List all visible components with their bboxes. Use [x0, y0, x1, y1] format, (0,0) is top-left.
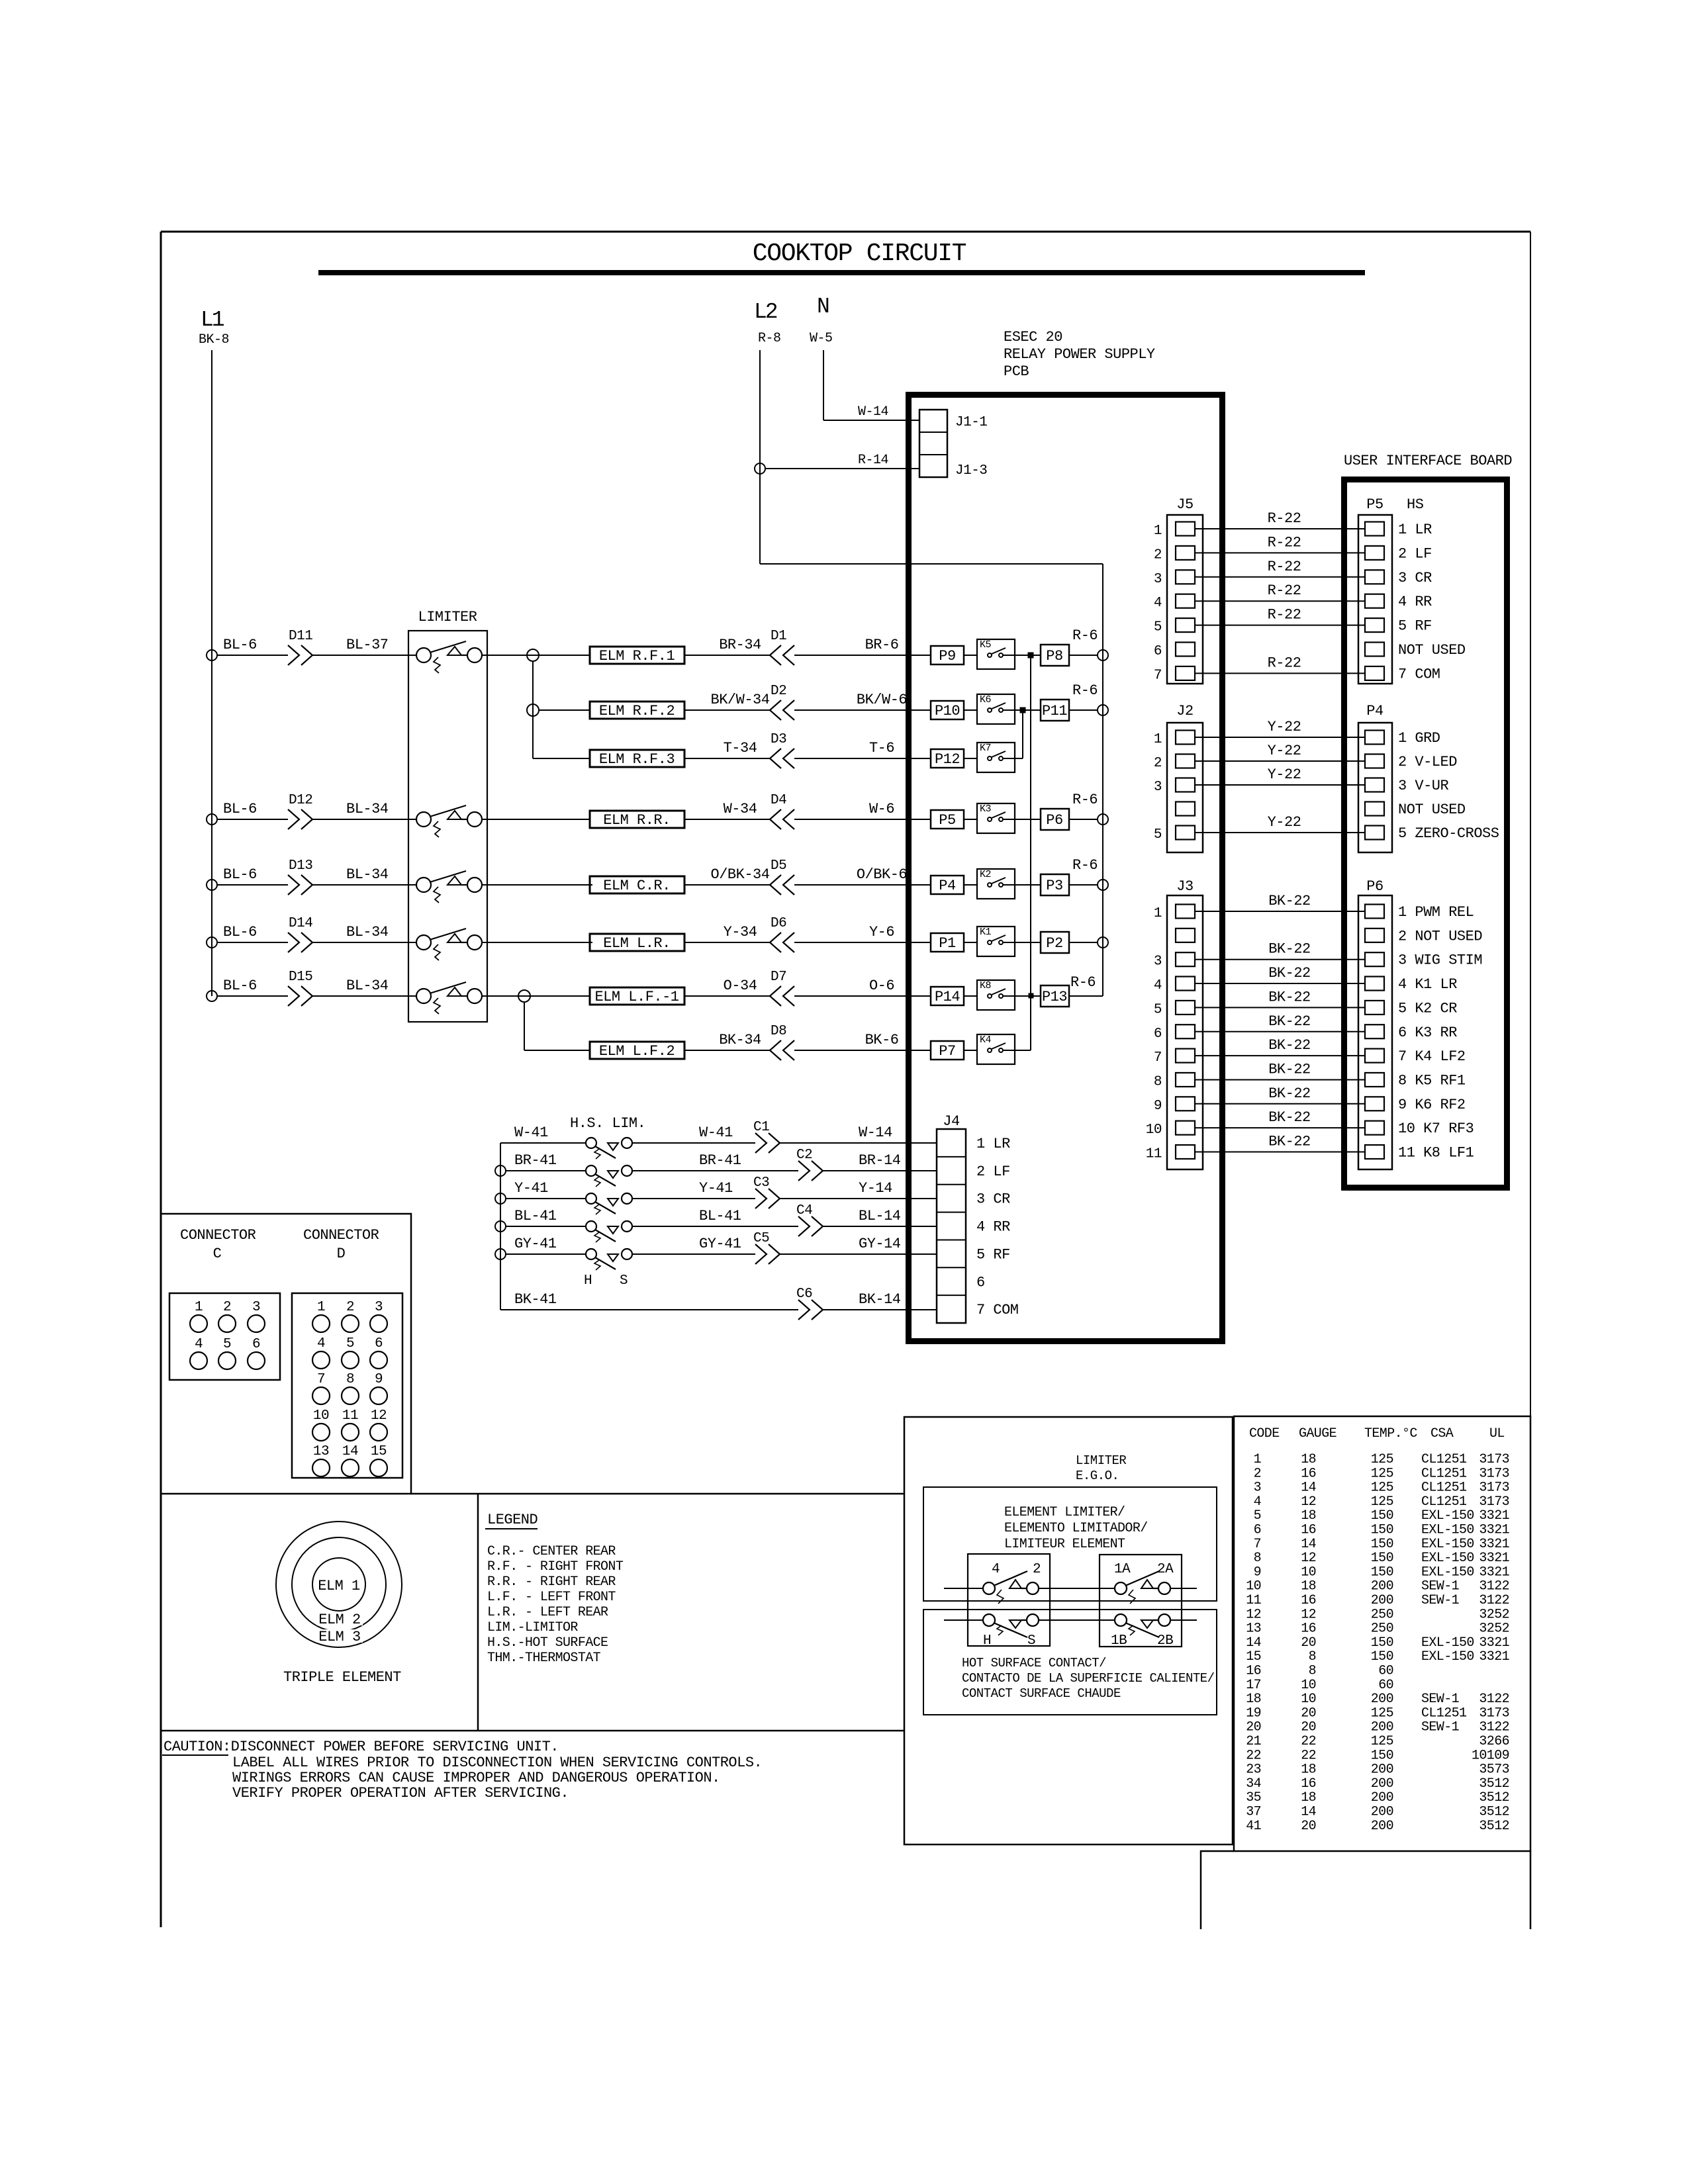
svg-text:C: C	[213, 1246, 222, 1262]
connector P4 pin cell 3	[1365, 778, 1384, 792]
svg-text:EXL-150: EXL-150	[1421, 1649, 1474, 1664]
svg-text:ELM 2: ELM 2	[318, 1612, 361, 1628]
svg-text:3266: 3266	[1479, 1734, 1509, 1749]
svg-text:BK-41: BK-41	[514, 1291, 557, 1308]
svg-text:7 COM: 7 COM	[1398, 666, 1440, 682]
junction L1-RF1	[207, 650, 217, 660]
wire W-14	[780, 1142, 937, 1144]
svg-text:P13: P13	[1042, 989, 1067, 1005]
svg-text:20: 20	[1301, 1706, 1316, 1721]
triple element inner circle	[312, 1558, 365, 1611]
svg-text:4: 4	[1154, 596, 1162, 611]
svg-text:5 RF: 5 RF	[1398, 618, 1432, 635]
wire T-6	[794, 758, 931, 759]
svg-text:5: 5	[346, 1336, 354, 1351]
svg-text:LABEL ALL WIRES PRIOR TO DISCO: LABEL ALL WIRES PRIOR TO DISCONNECTION W…	[232, 1754, 762, 1771]
svg-text:EXL-150: EXL-150	[1421, 1551, 1474, 1566]
svg-text:K6: K6	[980, 694, 992, 705]
limiter ego section box	[904, 1417, 1233, 1844]
svg-text:ELM L.F.-1: ELM L.F.-1	[594, 989, 679, 1005]
section divider caution top	[161, 1730, 904, 1732]
svg-text:4 RR: 4 RR	[976, 1219, 1010, 1236]
svg-text:D11: D11	[289, 629, 312, 644]
svg-text:P6: P6	[1366, 878, 1383, 895]
svg-text:EXL-150: EXL-150	[1421, 1508, 1474, 1524]
svg-text:1B: 1B	[1111, 1633, 1127, 1649]
wire code table box	[1234, 1416, 1530, 1851]
terminal P11	[1041, 700, 1069, 721]
wire P3 to R bus	[1069, 884, 1098, 886]
svg-text:ELEMENTO LIMITADOR/: ELEMENTO LIMITADOR/	[1004, 1521, 1148, 1536]
svg-text:18: 18	[1301, 1579, 1316, 1594]
connector D5	[770, 875, 794, 895]
svg-text:1 LR: 1 LR	[1398, 522, 1432, 538]
connector J5 pin 3 cell	[1176, 570, 1195, 584]
hot-surface limiter switch GY	[586, 1249, 596, 1259]
svg-text:BL-14: BL-14	[859, 1208, 901, 1224]
hot-surface limiter switch W	[586, 1138, 596, 1148]
connector D box	[292, 1293, 402, 1478]
junction L1-LR	[207, 937, 217, 948]
connector P6 pin cell 8	[1365, 1073, 1384, 1087]
wire R-22 J5-4	[1195, 600, 1365, 602]
connector J5 pin 5 cell	[1176, 618, 1195, 632]
svg-text:11: 11	[1246, 1593, 1261, 1608]
hot surface dotted box	[923, 1610, 1217, 1715]
wire W-14 to J1-1	[823, 420, 919, 421]
svg-text:BL-6: BL-6	[223, 866, 257, 883]
connector P5 pin cell 7	[1365, 666, 1384, 680]
page border right	[1530, 232, 1531, 1929]
wire Y-41 right Y	[632, 1198, 755, 1199]
wire BL-14	[823, 1226, 937, 1227]
svg-text:250: 250	[1371, 1607, 1393, 1622]
svg-text:NOT USED: NOT USED	[1398, 801, 1466, 818]
terminal P13	[1041, 985, 1069, 1007]
connector D13	[288, 875, 312, 895]
connector C5	[755, 1244, 780, 1264]
element box ELM C.R.	[590, 876, 684, 893]
svg-text:W-5: W-5	[810, 331, 833, 346]
junction RF1 branch	[527, 649, 539, 661]
svg-text:200: 200	[1371, 1593, 1393, 1608]
svg-text:R-22: R-22	[1268, 655, 1301, 671]
wire BK-22 J3-6	[1195, 1031, 1365, 1032]
terminal P8	[1041, 645, 1069, 666]
terminal P7	[931, 1041, 964, 1060]
svg-text:ESEC 20: ESEC 20	[1004, 329, 1062, 345]
svg-text:D7: D7	[771, 970, 786, 985]
svg-text:16: 16	[1301, 1593, 1316, 1608]
svg-text:3321: 3321	[1479, 1565, 1509, 1580]
wire BK-22 J3-5	[1195, 1007, 1365, 1008]
svg-text:HS: HS	[1407, 496, 1424, 513]
connector J2 pin 5 cell	[1176, 826, 1195, 840]
connector P4 box	[1358, 723, 1392, 852]
junction R bus RF1	[1098, 650, 1108, 660]
svg-text:VERIFY PROPER OPERATION AFTER: VERIFY PROPER OPERATION AFTER SERVICING.	[232, 1785, 569, 1801]
junction R bus LR	[1098, 937, 1108, 948]
svg-text:3321: 3321	[1479, 1649, 1509, 1664]
svg-text:6: 6	[375, 1336, 383, 1351]
svg-text:1: 1	[1154, 906, 1162, 921]
svg-text:C4: C4	[796, 1203, 812, 1218]
svg-text:D4: D4	[771, 793, 786, 808]
svg-text:11 K8 LF1: 11 K8 LF1	[1398, 1145, 1474, 1161]
svg-text:20: 20	[1246, 1720, 1261, 1735]
svg-text:BR-6: BR-6	[865, 637, 899, 653]
svg-text:C.R.- CENTER REAR: C.R.- CENTER REAR	[487, 1544, 616, 1559]
svg-text:3: 3	[1154, 572, 1162, 587]
ego lower right switch	[1115, 1614, 1127, 1626]
connector D11	[288, 645, 312, 665]
svg-text:N: N	[817, 295, 829, 319]
svg-text:P6: P6	[1046, 812, 1062, 829]
relay contact K6	[977, 694, 1015, 724]
svg-text:J4: J4	[943, 1113, 960, 1130]
limiter box	[408, 631, 487, 1022]
relay contact K2	[977, 869, 1015, 899]
svg-text:1: 1	[317, 1300, 325, 1315]
connector J2 pin 1 cell	[1176, 731, 1195, 745]
svg-text:7: 7	[1254, 1537, 1261, 1552]
element box ELM R.F.2	[590, 702, 684, 719]
svg-text:E.G.O.: E.G.O.	[1076, 1469, 1119, 1483]
svg-text:3122: 3122	[1479, 1579, 1509, 1594]
ego upper wire right	[1170, 1588, 1197, 1589]
label ELM 2	[316, 1612, 363, 1625]
connector C6	[798, 1300, 823, 1320]
wire RF branch drop	[532, 661, 534, 758]
svg-text:J1-1: J1-1	[955, 415, 987, 430]
svg-text:BL-34: BL-34	[346, 801, 389, 817]
svg-text:17: 17	[1246, 1678, 1261, 1693]
svg-text:K5: K5	[980, 639, 992, 651]
svg-text:BR-34: BR-34	[719, 637, 761, 653]
svg-text:22: 22	[1246, 1748, 1261, 1763]
svg-text:6: 6	[1154, 644, 1162, 659]
svg-text:BK-22: BK-22	[1268, 1134, 1311, 1150]
svg-text:10109: 10109	[1472, 1748, 1509, 1763]
wire limiter to CR element	[487, 884, 592, 886]
connector P6 pin cell 10	[1365, 1121, 1384, 1135]
svg-text:4: 4	[1254, 1494, 1261, 1510]
svg-text:R-6: R-6	[1072, 792, 1098, 808]
svg-text:125: 125	[1371, 1452, 1393, 1467]
svg-text:9: 9	[1154, 1099, 1162, 1114]
wire R-14 to J1-3	[765, 468, 919, 469]
svg-text:O/BK-6: O/BK-6	[857, 866, 907, 883]
svg-text:3252: 3252	[1479, 1621, 1509, 1637]
svg-text:R-22: R-22	[1268, 582, 1301, 599]
svg-text:4: 4	[992, 1562, 1000, 1577]
svg-text:150: 150	[1371, 1508, 1393, 1524]
connector C2	[798, 1161, 823, 1181]
terminal P2	[1041, 932, 1069, 953]
terminal P3	[1041, 874, 1069, 895]
svg-text:J5: J5	[1176, 496, 1193, 513]
relay power supply PCB box	[909, 395, 1223, 1342]
junction R bus CR	[1098, 880, 1108, 890]
svg-text:BL-6: BL-6	[223, 978, 257, 994]
svg-text:Y-22: Y-22	[1268, 719, 1301, 735]
wire P9 to K5	[964, 655, 977, 656]
wire R bus to P13	[1069, 995, 1103, 997]
wire R-22 J5-1	[1195, 528, 1365, 529]
svg-text:2 NOT USED: 2 NOT USED	[1398, 928, 1482, 944]
wire limiter to LR element	[487, 942, 592, 943]
svg-text:15: 15	[1246, 1649, 1261, 1664]
svg-text:BK-22: BK-22	[1268, 1085, 1311, 1102]
svg-text:1: 1	[1154, 523, 1162, 539]
svg-text:3122: 3122	[1479, 1593, 1509, 1608]
wire BR-34	[684, 655, 770, 656]
wire Y-22 J2-5	[1195, 832, 1365, 833]
wire P1 to K1	[964, 942, 977, 943]
svg-text:CONNECTOR: CONNECTOR	[303, 1227, 379, 1244]
wire Y-41 left Y	[506, 1198, 586, 1199]
ego upper right switch	[1115, 1582, 1127, 1594]
svg-text:EXL-150: EXL-150	[1421, 1523, 1474, 1538]
wire limiter out LF1	[482, 995, 487, 997]
wire P8 to R bus	[1069, 655, 1098, 656]
user interface board box	[1344, 480, 1507, 1188]
connector J5 pin 2 cell	[1176, 546, 1195, 560]
svg-text:150: 150	[1371, 1635, 1393, 1651]
connector J3 pin 6 cell	[1176, 1024, 1195, 1038]
svg-text:ELM 3: ELM 3	[318, 1629, 361, 1645]
wire RF2 branch	[539, 709, 590, 711]
svg-text:W-34: W-34	[724, 801, 757, 817]
svg-text:125: 125	[1371, 1734, 1393, 1749]
wire K6 out	[1003, 709, 1041, 711]
svg-text:2: 2	[223, 1300, 231, 1315]
svg-text:4: 4	[317, 1336, 325, 1351]
svg-text:Y-14: Y-14	[859, 1180, 892, 1197]
svg-text:18: 18	[1301, 1790, 1316, 1805]
terminal P6	[1041, 809, 1069, 830]
wire K8 out	[1003, 995, 1041, 997]
wire K7 out	[1003, 758, 1023, 759]
junction L1-CR	[207, 880, 217, 890]
svg-text:200: 200	[1371, 1692, 1393, 1707]
wire GY-41 right GY	[632, 1253, 755, 1255]
connector P5 pin cell 5	[1365, 618, 1384, 632]
svg-text:D5: D5	[771, 858, 786, 874]
svg-text:12: 12	[1301, 1494, 1316, 1510]
svg-text:P9: P9	[939, 648, 955, 664]
terminal P14	[931, 987, 964, 1005]
wire BR-6	[794, 655, 931, 656]
svg-text:14: 14	[342, 1444, 358, 1459]
svg-text:16: 16	[1301, 1466, 1316, 1481]
triple element outer circle	[276, 1522, 402, 1647]
svg-text:3122: 3122	[1479, 1720, 1509, 1735]
svg-text:LIMITEUR ELEMENT: LIMITEUR ELEMENT	[1004, 1537, 1125, 1552]
svg-text:P7: P7	[939, 1043, 955, 1060]
ego lower wire mid	[1039, 1619, 1115, 1621]
wire BK-22 J3-10	[1195, 1127, 1365, 1128]
svg-text:10: 10	[313, 1408, 329, 1424]
svg-text:SEW-1: SEW-1	[1421, 1593, 1460, 1608]
svg-text:3173: 3173	[1479, 1706, 1509, 1721]
connector P5 pin cell 3	[1365, 570, 1384, 584]
svg-text:2 V-LED: 2 V-LED	[1398, 754, 1457, 770]
wire RF3 branch	[533, 758, 590, 759]
svg-text:K3: K3	[980, 803, 992, 815]
wire W-6	[794, 819, 931, 820]
wire K5 node vertical	[1030, 655, 1031, 1050]
wire limiter out RR	[482, 819, 487, 820]
ego lower wire right	[1170, 1619, 1197, 1621]
relay contact K4	[977, 1034, 1015, 1064]
connector P5 box	[1358, 515, 1392, 684]
svg-text:LIM.-LIMITOR: LIM.-LIMITOR	[487, 1620, 578, 1635]
connector J3 pin 11 cell	[1176, 1145, 1195, 1159]
svg-text:BL-34: BL-34	[346, 924, 389, 940]
ego upper left switch	[983, 1582, 995, 1594]
wire P6 to R bus	[1069, 819, 1098, 820]
svg-text:COOKTOP CIRCUIT: COOKTOP CIRCUIT	[753, 240, 966, 268]
svg-text:3512: 3512	[1479, 1790, 1509, 1805]
svg-text:5: 5	[1154, 1002, 1162, 1017]
limiter switch CR	[416, 878, 431, 892]
svg-text:ELM R.F.1: ELM R.F.1	[599, 648, 675, 664]
connector P6 pin cell 7	[1365, 1049, 1384, 1063]
terminal P10	[931, 701, 964, 719]
svg-text:H.S. LIM.: H.S. LIM.	[570, 1115, 645, 1132]
svg-text:16: 16	[1301, 1621, 1316, 1637]
svg-text:16: 16	[1301, 1523, 1316, 1538]
connector P4 pin cell 4	[1365, 802, 1384, 816]
wire BL-6 CR	[217, 884, 288, 886]
svg-text:P8: P8	[1046, 648, 1062, 664]
connector J5 pin 4 cell	[1176, 594, 1195, 608]
svg-text:Y-22: Y-22	[1268, 766, 1301, 783]
title underline	[318, 270, 1365, 275]
svg-text:R-6: R-6	[1072, 627, 1098, 644]
page border top	[161, 231, 1530, 233]
wire K5 out	[1003, 655, 1041, 656]
connector C1	[755, 1133, 780, 1153]
svg-text:7: 7	[1154, 668, 1162, 683]
svg-text:K1: K1	[980, 927, 992, 938]
svg-text:8: 8	[346, 1372, 354, 1387]
svg-text:BK/W-34: BK/W-34	[711, 692, 770, 708]
svg-text:NOT USED: NOT USED	[1398, 642, 1466, 659]
junction L2 R-14 tap	[755, 463, 765, 474]
svg-text:8: 8	[1154, 1074, 1162, 1089]
element box ELM R.R.	[590, 811, 684, 828]
svg-text:BK-22: BK-22	[1268, 1013, 1311, 1030]
svg-text:D2: D2	[771, 684, 786, 699]
junction HS trunk GY	[495, 1249, 506, 1259]
svg-text:J2: J2	[1176, 703, 1193, 719]
svg-text:C5: C5	[753, 1231, 769, 1246]
connector P6 pin cell 3	[1365, 952, 1384, 966]
svg-text:UL: UL	[1489, 1426, 1505, 1441]
svg-text:10: 10	[1246, 1579, 1261, 1594]
svg-text:18: 18	[1301, 1452, 1316, 1467]
svg-text:T-6: T-6	[869, 740, 894, 756]
wire BK-22 J3-8	[1195, 1079, 1365, 1080]
svg-text:P1: P1	[939, 935, 956, 952]
svg-text:R-6: R-6	[1072, 857, 1098, 874]
svg-text:4: 4	[1154, 978, 1162, 993]
connector J3 pin 5 cell	[1176, 1001, 1195, 1015]
svg-text:BK-22: BK-22	[1268, 1061, 1311, 1077]
svg-text:D6: D6	[771, 916, 786, 931]
wire O/BK-34	[684, 884, 770, 886]
svg-text:D1: D1	[771, 629, 786, 644]
ego upper wire mid	[1039, 1588, 1115, 1589]
svg-text:BK-22: BK-22	[1268, 989, 1311, 1005]
wire L2 drop	[759, 350, 761, 564]
label ELM 3	[316, 1629, 363, 1643]
svg-text:SEW-1: SEW-1	[1421, 1692, 1460, 1707]
svg-text:BL-41: BL-41	[514, 1208, 557, 1224]
wire BL-34 LF1	[312, 995, 416, 997]
svg-text:ELM R.F.3: ELM R.F.3	[599, 751, 675, 768]
svg-text:4 RR: 4 RR	[1398, 594, 1432, 610]
wire O-34	[684, 995, 770, 997]
svg-text:10: 10	[1301, 1692, 1316, 1707]
relay contact K3	[977, 803, 1015, 833]
junction HS trunk BL	[495, 1221, 506, 1232]
wire R bus vertical	[1102, 564, 1103, 996]
wire BL-6 RF1	[217, 655, 288, 656]
svg-text:CL1251: CL1251	[1421, 1494, 1467, 1510]
ego right sub-box	[1100, 1555, 1182, 1647]
svg-text:GY-14: GY-14	[859, 1236, 901, 1252]
wire limiter out CR	[482, 884, 487, 886]
svg-text:P11: P11	[1042, 703, 1067, 719]
svg-text:USER INTERFACE BOARD: USER INTERFACE BOARD	[1344, 453, 1512, 469]
junction L1-LF1	[207, 991, 217, 1001]
svg-text:12: 12	[1246, 1607, 1261, 1622]
hot-surface limiter switch BL	[586, 1221, 596, 1232]
svg-text:2 LF: 2 LF	[1398, 545, 1432, 562]
connector J2 pin 4 cell	[1176, 802, 1195, 816]
svg-text:L.R. - LEFT REAR: L.R. - LEFT REAR	[487, 1605, 608, 1620]
connector J3 pin 9 cell	[1176, 1097, 1195, 1111]
relay contact K1	[977, 927, 1015, 956]
svg-text:W-41: W-41	[699, 1124, 733, 1141]
ego left sub-box	[968, 1554, 1050, 1646]
svg-text:6: 6	[1154, 1026, 1162, 1042]
connector D12	[288, 809, 312, 829]
svg-text:Y-41: Y-41	[699, 1180, 733, 1197]
svg-text:4 K1 LR: 4 K1 LR	[1398, 976, 1457, 993]
connector J2 pin 3 cell	[1176, 778, 1195, 792]
junction HS trunk Y	[495, 1193, 506, 1204]
section divider legend top	[161, 1493, 904, 1495]
svg-text:C2: C2	[796, 1148, 812, 1163]
section divider legend-triple	[477, 1494, 479, 1731]
svg-text:TRIPLE ELEMENT: TRIPLE ELEMENT	[283, 1669, 401, 1686]
svg-text:1: 1	[1254, 1452, 1262, 1467]
svg-text:1: 1	[195, 1300, 203, 1315]
wire Y-34	[684, 942, 770, 943]
svg-text:CL1251: CL1251	[1421, 1466, 1467, 1481]
wire P14 to K8	[964, 995, 977, 997]
svg-text:BK-34: BK-34	[719, 1032, 761, 1048]
svg-text:Y-22: Y-22	[1268, 814, 1301, 831]
svg-text:12: 12	[371, 1408, 387, 1424]
svg-text:H: H	[983, 1633, 991, 1649]
svg-text:CL1251: CL1251	[1421, 1706, 1467, 1721]
connector J3 box	[1167, 895, 1203, 1169]
